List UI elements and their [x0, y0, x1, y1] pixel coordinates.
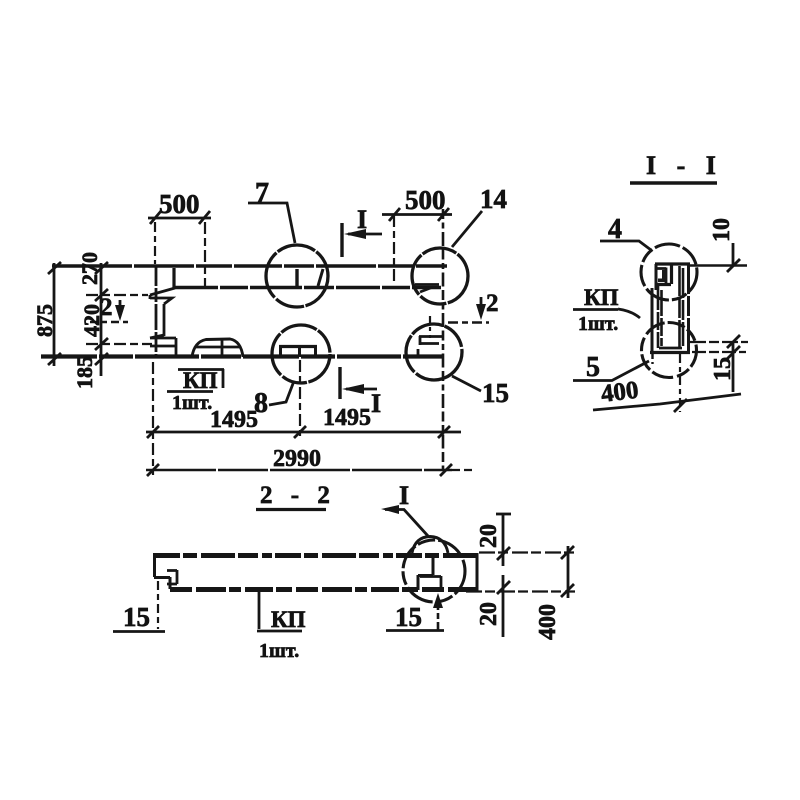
dim 20 bottom: line [502, 575, 505, 637]
detail circle 14 [412, 248, 468, 304]
circle 7 inner tick 2 [318, 269, 323, 286]
section cut 2 left: arrow [119, 300, 122, 312]
svg-text:1шт.: 1шт. [259, 640, 299, 662]
dim 20 top: line [502, 513, 505, 566]
circle 14 inner line [415, 283, 439, 286]
dimension 500 right: extension line [393, 215, 395, 282]
dim 400 (I-I): extension dashed [679, 354, 681, 412]
svg-text:КП: КП [584, 285, 619, 310]
svg-text:КП: КП [183, 368, 218, 393]
dim 10: tick [727, 259, 740, 272]
dim 15: dim line [732, 342, 735, 392]
section cut I mark (2-2): arrow [385, 510, 428, 537]
circle 7 inner tick 1 [295, 269, 298, 286]
mound inner tick [221, 339, 224, 356]
left dim chain line [100, 263, 103, 376]
circle 15 inner bracket [418, 336, 442, 355]
dim 400 (I-I): ticks [674, 399, 687, 412]
svg-text:I: I [399, 481, 409, 510]
svg-text:7: 7 [255, 178, 269, 209]
slab left nub [167, 570, 177, 584]
svg-text:I: I [357, 205, 367, 234]
panel bottom edge [41, 354, 443, 358]
svg-text:10: 10 [709, 218, 735, 242]
bottom dim extension lines [152, 362, 154, 475]
bottom dim 2990 ticks [147, 464, 452, 476]
svg-text:2990: 2990 [273, 446, 321, 472]
KP callout (2-2): leader [258, 592, 261, 629]
svg-text:500: 500 [405, 185, 446, 215]
dim 15: ticks [727, 335, 740, 359]
dimension 500 right: dim line [382, 213, 452, 216]
dim 10: extension [690, 264, 747, 266]
svg-text:I - I: I - I [646, 151, 723, 180]
detail circle 15 [406, 324, 462, 380]
svg-text:270: 270 [77, 252, 102, 285]
left dim 875: ticks [48, 262, 61, 365]
dome on slab [412, 537, 448, 554]
I-I profile bottom edge [650, 351, 690, 354]
I-I bottom detail circle [642, 323, 697, 378]
leader and label 8 [269, 381, 294, 405]
panel top band inner line [174, 286, 441, 290]
dimension 500 left: dim line [148, 217, 211, 220]
left dim 875: line [53, 263, 56, 366]
section cut 2 right: trace [448, 321, 489, 324]
left profile outer edge [155, 266, 158, 357]
svg-text:400: 400 [535, 604, 561, 640]
section cut I top: line [340, 223, 343, 257]
KP underline (plan) [167, 390, 213, 393]
detail circle 7 [266, 245, 328, 307]
I-I hook lobe fill [658, 270, 667, 282]
panel right edge (dashed extension line) [442, 209, 445, 470]
leader left 15 [157, 581, 159, 629]
left profile lower step [150, 335, 176, 356]
svg-text:1495: 1495 [323, 405, 371, 431]
dim 400 (2-2): slashes [561, 546, 574, 597]
section cut I bottom: line [338, 367, 341, 399]
svg-text:1495: 1495 [210, 407, 258, 433]
svg-text:15: 15 [123, 602, 150, 632]
dim 400 (2-2): line [567, 546, 570, 598]
KP callout bracket (plan) [178, 369, 224, 388]
left profile web line [163, 304, 166, 336]
title underline [256, 508, 326, 511]
dim 20 top: slash [497, 547, 510, 560]
svg-text:15: 15 [710, 357, 736, 381]
leader and label 14 [452, 211, 482, 247]
dim 10: dim line [732, 243, 735, 266]
detail circle 8 [272, 325, 330, 383]
section cut I top: arrow [348, 233, 382, 236]
svg-text:20: 20 [476, 524, 502, 548]
svg-text:20: 20 [476, 602, 502, 626]
KP underline (I-I) [573, 308, 618, 311]
I-I top hook inner [657, 268, 666, 284]
left dim chain extension lines [86, 294, 148, 296]
svg-text:185: 185 [72, 356, 97, 389]
svg-text:2: 2 [486, 290, 499, 317]
left dim chain ticks [95, 262, 108, 365]
dimension 500 right: ticks [389, 208, 449, 221]
circle 14 inner mark [420, 287, 433, 292]
profile bottom-left dash continuation [651, 354, 653, 364]
svg-text:2 - 2: 2 - 2 [260, 482, 336, 509]
slab top band [154, 553, 477, 558]
bottom dim line 2990 [146, 469, 452, 472]
I-I profile right edge [687, 264, 690, 352]
svg-text:15: 15 [395, 602, 422, 632]
centerline mark near circle 15 [429, 316, 431, 338]
circle 8 inner top bar [279, 345, 317, 348]
bottom dim ticks [147, 426, 450, 438]
lifting loop mound [192, 339, 243, 357]
svg-text:420: 420 [79, 304, 104, 337]
dimension 500 left: extension lines [154, 222, 156, 264]
svg-text:КП: КП [271, 607, 306, 632]
I-I profile left edge [652, 264, 656, 352]
section cut 2 right: arrow [480, 297, 483, 310]
leader and label 15 [452, 376, 481, 391]
joint step [418, 556, 433, 590]
section cut 2 left: trace [90, 321, 128, 324]
svg-text:5: 5 [586, 352, 600, 383]
mound inner line [196, 346, 240, 349]
panel top edge [52, 264, 447, 268]
left profile keyway [150, 288, 175, 304]
svg-text:I: I [371, 389, 381, 418]
svg-text:1шт.: 1шт. [172, 392, 212, 414]
section cut I bottom: arrow [346, 388, 377, 391]
I-I profile top edge [655, 262, 690, 265]
slab right edge [476, 553, 479, 592]
dim 20 bottom: slash [497, 581, 510, 594]
dim 400 (I-I): dim line [593, 394, 741, 410]
I-I inner cavity right wall [680, 266, 684, 348]
svg-text:1шт.: 1шт. [578, 313, 618, 335]
slab left end step [154, 553, 170, 589]
dim 15: extensions [690, 341, 748, 343]
svg-text:875: 875 [32, 304, 57, 337]
I-I inner cavity bottom [659, 347, 682, 350]
svg-text:14: 14 [480, 184, 507, 214]
circle 8 inner verticals [281, 346, 316, 357]
leader below joint with arrow [437, 600, 440, 630]
svg-text:500: 500 [159, 189, 200, 219]
leader and label 7 [248, 203, 295, 243]
KP underline (2-2) [257, 630, 302, 633]
KP leader curve (I-I) [618, 309, 640, 318]
title underline [630, 181, 717, 184]
dimension 500 left: ticks [150, 211, 210, 224]
I-I inner cavity left wall [658, 284, 662, 348]
joint detail circle (2-2) [403, 540, 465, 602]
I-I top hook outer [655, 264, 672, 285]
dim extensions right (2-2) [479, 551, 575, 553]
svg-text:400: 400 [599, 377, 640, 408]
dim 20 top: end tick [496, 513, 511, 516]
joint key box [420, 576, 441, 591]
bottom dim line 1495+1495 [146, 431, 461, 434]
left profile inner top edge [172, 268, 175, 288]
I-I top detail circle [641, 244, 697, 300]
svg-text:15: 15 [482, 378, 509, 408]
slab bottom band [170, 587, 477, 592]
